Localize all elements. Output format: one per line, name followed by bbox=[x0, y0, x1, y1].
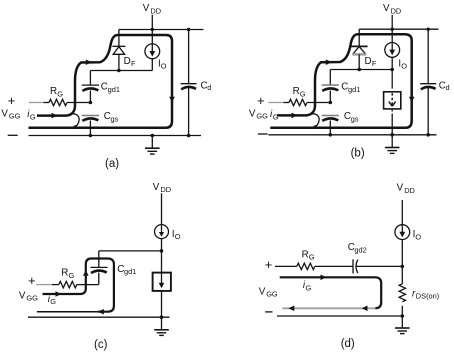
label DF (b) bbox=[365, 56, 377, 68]
wire top rail (a) bbox=[119, 29, 204, 31]
svg-text:V: V bbox=[397, 182, 404, 193]
wire drain node line (b) bbox=[330, 69, 392, 71]
ground (c) bbox=[154, 317, 169, 335]
label (c) bbox=[94, 339, 108, 351]
node ground junction (c) bbox=[160, 315, 164, 319]
arrow iG on loop (c) bbox=[56, 291, 62, 297]
svg-text:+: + bbox=[28, 273, 36, 288]
capacitor Cd (b) bbox=[420, 29, 436, 135]
label RG (c) bbox=[61, 268, 74, 280]
svg-text:O: O bbox=[415, 232, 421, 241]
svg-text:O: O bbox=[175, 232, 181, 241]
arrow iG on loop (d) bbox=[321, 275, 327, 281]
wire gate input gray (b) bbox=[268, 102, 283, 104]
resistor RG (b) bbox=[289, 99, 307, 105]
wire Cgd1 riser (c) bbox=[98, 251, 100, 268]
label minus (a) bbox=[8, 134, 18, 136]
node Cgs-bottom junction (b) bbox=[329, 133, 333, 137]
svg-text:DD: DD bbox=[391, 6, 402, 15]
svg-text:DS(on): DS(on) bbox=[416, 291, 439, 300]
capacitor Cgd1 (c) bbox=[90, 267, 107, 284]
wire gate to resistor (b) bbox=[284, 102, 290, 104]
svg-text:GG: GG bbox=[26, 294, 38, 303]
capacitor Cgd1 (a) bbox=[82, 85, 99, 102]
svg-text:V: V bbox=[1, 108, 8, 119]
capacitor Cd (a) bbox=[181, 30, 197, 136]
label Cgs (a) bbox=[104, 111, 119, 123]
arrow mid loop (a) bbox=[86, 59, 92, 65]
svg-text:gs: gs bbox=[111, 114, 119, 123]
svg-text:R: R bbox=[50, 86, 57, 97]
node gate junction (a) bbox=[89, 101, 93, 105]
wire VDD drop (d) bbox=[401, 200, 403, 225]
label RG (d) bbox=[302, 249, 315, 261]
wire bottom rail (d) bbox=[277, 315, 402, 317]
resistor RG (c) bbox=[59, 281, 77, 287]
node Cd-bottom junction (a) bbox=[187, 134, 191, 138]
label iG (b) bbox=[270, 109, 279, 121]
capacitor Cgs (a) bbox=[82, 116, 99, 136]
svg-text:R: R bbox=[61, 268, 68, 279]
svg-text:gs: gs bbox=[351, 114, 359, 123]
svg-text:G: G bbox=[50, 297, 56, 306]
arrow down loop (a) bbox=[169, 97, 175, 103]
label iG (d) bbox=[303, 280, 312, 292]
label VGG (d) bbox=[259, 286, 278, 298]
label Cd (b) bbox=[439, 80, 450, 92]
svg-text:G: G bbox=[69, 271, 75, 280]
ground (a) bbox=[145, 136, 160, 155]
capacitor Cgd1 (b) bbox=[322, 85, 339, 102]
arrow curl Cgs (a) bbox=[71, 114, 79, 130]
label VGG (b) bbox=[249, 108, 268, 120]
wire source to rds (d) bbox=[401, 240, 403, 284]
wire drain node line (a) bbox=[90, 70, 152, 72]
label (a) bbox=[105, 158, 119, 170]
svg-text:+: + bbox=[257, 93, 265, 108]
wire current loop bold (b) bbox=[270, 34, 411, 128]
label plus (c) bbox=[28, 273, 36, 288]
label IO (c) bbox=[172, 229, 181, 241]
wire bottom rail (c) bbox=[28, 316, 170, 318]
wire resistor to cap (c) bbox=[77, 284, 99, 286]
svg-text:F: F bbox=[372, 59, 377, 68]
arrow iG on loop (b) bbox=[292, 113, 298, 119]
label RG (b) bbox=[293, 86, 306, 98]
svg-text:(b): (b) bbox=[351, 148, 365, 160]
svg-text:V: V bbox=[19, 290, 26, 301]
wire box to bottom (b) bbox=[391, 109, 393, 116]
wire VDD drop (b) bbox=[391, 15, 393, 43]
node VDD-rail junction (b) bbox=[391, 28, 394, 31]
label (d) bbox=[341, 338, 355, 350]
svg-text:G: G bbox=[30, 113, 36, 122]
wire current loop bold (a) bbox=[29, 35, 173, 128]
svg-text:G: G bbox=[306, 284, 312, 293]
wire return thin (c) bbox=[37, 311, 98, 313]
label iG (c) bbox=[48, 294, 57, 306]
svg-text:G: G bbox=[300, 90, 306, 99]
controlled source box (c) bbox=[153, 273, 171, 291]
label minus (b) bbox=[258, 133, 268, 135]
arrow down loop (b) bbox=[409, 97, 415, 103]
label IO (b) bbox=[398, 59, 407, 71]
svg-text:DD: DD bbox=[404, 186, 415, 195]
label Cgd1 (b) bbox=[341, 81, 360, 93]
node Cd-bottom junction (b) bbox=[426, 133, 430, 137]
current source IO (b) bbox=[385, 43, 400, 58]
wire source to box (c) bbox=[161, 238, 163, 272]
svg-text:(d): (d) bbox=[341, 338, 355, 350]
wire gate input (d) bbox=[275, 265, 297, 267]
ground (b) bbox=[385, 135, 400, 154]
node VDD-rail junction (a) bbox=[151, 28, 154, 31]
label IO (d) bbox=[413, 229, 422, 241]
node diode-drain junction (a) bbox=[117, 69, 121, 73]
svg-text:V: V bbox=[249, 108, 256, 119]
svg-text:gd1: gd1 bbox=[108, 85, 120, 94]
diode DF (b) bbox=[351, 29, 368, 69]
label DF (a) bbox=[124, 56, 136, 68]
svg-text:O: O bbox=[161, 62, 167, 71]
wire VDD drop (a) bbox=[151, 15, 153, 44]
svg-text:R: R bbox=[302, 249, 309, 260]
label VDD (c) bbox=[153, 182, 171, 194]
wire rds to bottom (d) bbox=[401, 306, 403, 316]
wire resistor to gate node (b) bbox=[307, 102, 330, 104]
wire gate input gray (a) bbox=[29, 102, 44, 104]
wire resistor to Cgd2 (d) bbox=[315, 265, 353, 267]
wire box to bottom (c) bbox=[161, 291, 163, 317]
wire bottom rail (b) bbox=[268, 134, 436, 136]
ground (d) bbox=[395, 316, 410, 334]
capacitor Cgd2 (d) bbox=[353, 259, 358, 273]
label plus (a) bbox=[8, 93, 16, 108]
wire top rail (b) bbox=[359, 28, 438, 30]
label plus (b) bbox=[257, 93, 265, 108]
arrow return right (d) bbox=[362, 306, 368, 312]
label Cgd2 (d) bbox=[348, 242, 367, 254]
svg-text:O: O bbox=[401, 62, 407, 71]
wire current loop bold (c) bbox=[43, 259, 114, 312]
svg-text:G: G bbox=[309, 253, 315, 262]
label Cgs (b) bbox=[344, 111, 359, 123]
svg-text:V: V bbox=[153, 182, 160, 193]
node Cgs-bottom junction (a) bbox=[89, 134, 93, 138]
controlled source box (b) bbox=[384, 92, 401, 109]
svg-text:V: V bbox=[143, 3, 150, 14]
svg-text:F: F bbox=[131, 59, 136, 68]
node drain-box junction (b) bbox=[390, 68, 394, 72]
svg-text:+: + bbox=[265, 257, 273, 272]
node diode-drain junction (b) bbox=[357, 68, 361, 72]
wire bottom rail (a) bbox=[29, 135, 202, 137]
arrow return loop (c) bbox=[98, 309, 104, 315]
svg-text:G: G bbox=[57, 90, 63, 99]
svg-text:GG: GG bbox=[266, 290, 278, 299]
label rDS(on) (d) bbox=[412, 288, 439, 300]
label VDD (a) bbox=[143, 3, 161, 15]
arrow iG on loop (a) bbox=[52, 113, 58, 119]
wire Cgd2 to drain (d) bbox=[357, 265, 403, 267]
node gate-drain junction (d) bbox=[401, 265, 405, 269]
resistor rDS(on) (d) bbox=[399, 284, 405, 302]
label VDD (b) bbox=[383, 3, 401, 15]
wire gate to resistor (a) bbox=[44, 102, 50, 104]
current source IO (c) bbox=[155, 225, 169, 239]
arrow up loop (c) bbox=[83, 270, 89, 276]
svg-text:V: V bbox=[259, 286, 266, 297]
node ground junction (b) bbox=[390, 133, 394, 137]
node top line junction (c) bbox=[160, 249, 164, 253]
node rail-Cd junction (b) bbox=[427, 28, 430, 31]
svg-text:gd2: gd2 bbox=[354, 245, 366, 254]
label IO (a) bbox=[158, 59, 167, 71]
wire top line (c) bbox=[99, 250, 162, 252]
label Cd (a) bbox=[201, 80, 212, 92]
wire return gray (d) bbox=[282, 307, 375, 309]
node bottom junction (d) bbox=[401, 314, 405, 318]
wire drain to Cgd1 (a) bbox=[89, 71, 91, 86]
arrow curl Cgs (b) bbox=[311, 114, 319, 130]
label iG (a) bbox=[27, 109, 36, 121]
svg-text:G: G bbox=[273, 113, 279, 122]
wire gate input gray (c) bbox=[36, 284, 52, 286]
svg-text:(c): (c) bbox=[94, 339, 108, 351]
svg-text:DD: DD bbox=[150, 6, 161, 15]
resistor RG (d) bbox=[297, 263, 315, 269]
svg-text:D: D bbox=[365, 56, 372, 67]
svg-text:V: V bbox=[383, 3, 390, 14]
wire current loop bold (d) bbox=[280, 277, 382, 308]
wire source to drain line (a) bbox=[151, 59, 153, 71]
current source IO (a) bbox=[145, 44, 160, 59]
label Cgd1 (a) bbox=[101, 81, 120, 93]
current source IO (d) bbox=[395, 225, 410, 240]
resistor RG (a) bbox=[49, 99, 67, 105]
svg-text:GG: GG bbox=[256, 112, 268, 121]
svg-text:GG: GG bbox=[9, 112, 21, 121]
node rail-Cd junction (a) bbox=[187, 28, 190, 31]
label minus (d) bbox=[265, 311, 272, 313]
svg-text:d: d bbox=[207, 83, 211, 92]
svg-text:DD: DD bbox=[160, 185, 171, 194]
label VGG (a) bbox=[1, 108, 20, 120]
label VGG (c) bbox=[19, 290, 38, 302]
wire drain to Cgd1 (b) bbox=[329, 70, 331, 86]
arrow mid loop (b) bbox=[326, 59, 332, 65]
wire source through drain line (b) bbox=[391, 57, 393, 88]
arrow return left (d) bbox=[289, 306, 295, 312]
diode DF (a) bbox=[112, 30, 125, 71]
label Cgd1 (c) bbox=[117, 264, 136, 276]
wire resistor to gate node (a) bbox=[67, 102, 90, 104]
label (b) bbox=[351, 148, 365, 160]
wire gate to resistor (c) bbox=[52, 284, 59, 286]
label VDD (d) bbox=[397, 182, 415, 194]
wire VDD drop (c) bbox=[161, 193, 163, 225]
svg-text:gd1: gd1 bbox=[124, 267, 136, 276]
svg-text:gd1: gd1 bbox=[348, 85, 360, 94]
svg-text:R: R bbox=[293, 86, 300, 97]
node ground junction (a) bbox=[151, 134, 155, 138]
capacitor Cgs (b) bbox=[322, 116, 339, 135]
label plus (d) bbox=[265, 257, 273, 272]
svg-text:+: + bbox=[8, 93, 16, 108]
svg-text:(a): (a) bbox=[105, 158, 119, 170]
svg-text:D: D bbox=[124, 56, 131, 67]
label RG (a) bbox=[50, 86, 63, 98]
svg-text:d: d bbox=[446, 83, 450, 92]
node gate junction (b) bbox=[329, 101, 333, 105]
